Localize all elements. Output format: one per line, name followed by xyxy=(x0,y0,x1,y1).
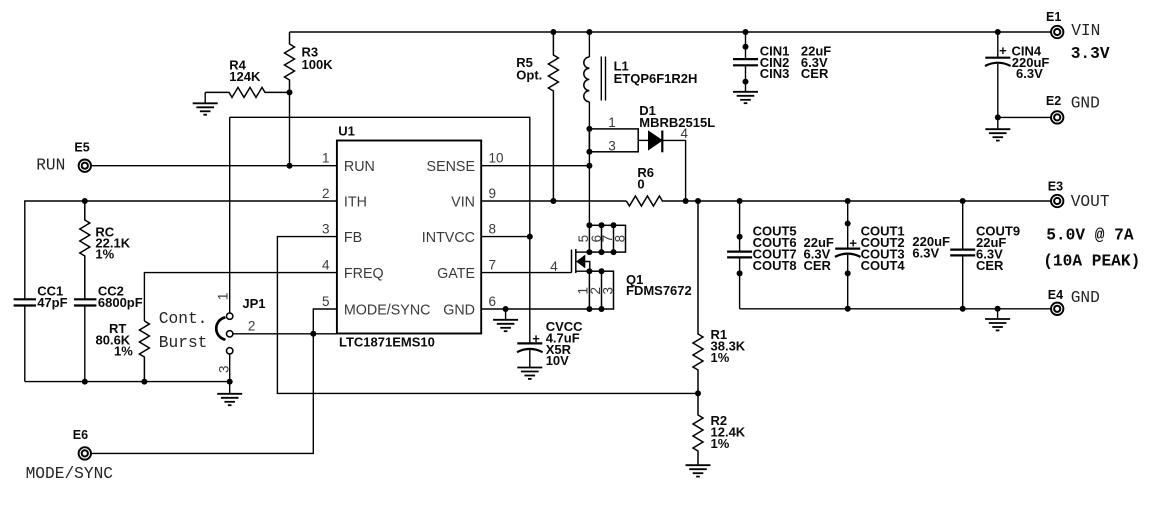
transistor Q1 source pad block pins 1-3 xyxy=(589,271,613,309)
svg-text:8: 8 xyxy=(489,222,497,237)
wire E2 xyxy=(998,116,1051,118)
svg-text:10: 10 xyxy=(489,151,504,166)
node GND junction xyxy=(503,306,509,312)
svg-text:VIN: VIN xyxy=(451,194,475,210)
wire INTVCC link top xyxy=(230,117,530,343)
svg-text:LTC1871EMS10: LTC1871EMS10 xyxy=(339,335,435,350)
diode D1 symbol xyxy=(649,131,663,150)
wire comp network bottom xyxy=(25,381,230,383)
wire L1 to D1/Q1 column xyxy=(588,102,590,226)
diode D1 package MBRB2515L xyxy=(589,129,638,152)
svg-text:RUN: RUN xyxy=(36,156,65,174)
ground at E2 xyxy=(997,117,999,129)
svg-text:3: 3 xyxy=(600,287,615,295)
node CIN4 top junction xyxy=(995,29,1001,35)
svg-text:MODE/SYNC: MODE/SYNC xyxy=(26,465,114,483)
ground at U1 GND xyxy=(505,309,507,320)
resistor RC xyxy=(80,201,90,299)
svg-text:2: 2 xyxy=(322,186,330,201)
node L1 top xyxy=(586,29,592,35)
wire INTVCC pin8 xyxy=(481,236,530,238)
wire JP1 pin1 stub from INTVCC link xyxy=(229,117,231,313)
node MODE/SYNC junction xyxy=(310,331,316,337)
svg-text:3: 3 xyxy=(322,222,330,237)
svg-text:Burst: Burst xyxy=(159,334,208,352)
svg-text:MODE/SYNC: MODE/SYNC xyxy=(344,302,431,318)
terminal E1 xyxy=(1051,26,1063,38)
jumper JP1 pin3 xyxy=(227,348,233,354)
svg-text:4: 4 xyxy=(322,258,330,273)
svg-text:E3: E3 xyxy=(1048,180,1063,194)
svg-text:+: + xyxy=(999,43,1007,58)
transistor Q1 drain pad block pins 5-8 xyxy=(589,225,625,252)
wire top VIN rail xyxy=(290,31,1051,33)
node Q1 drain dots bottom xyxy=(586,249,592,255)
resistor R6 xyxy=(626,196,685,206)
ground at CVCC xyxy=(517,368,542,379)
wire FREQ pin4 xyxy=(144,273,337,321)
ground at CIN xyxy=(733,92,758,103)
svg-text:0: 0 xyxy=(637,177,644,192)
resistor R3 xyxy=(285,32,295,92)
resistor R1 xyxy=(693,201,703,393)
wire MODE/SYNC pin5 xyxy=(313,309,337,334)
svg-text:FDMS7672: FDMS7672 xyxy=(626,283,692,298)
svg-text:2: 2 xyxy=(248,319,256,334)
wire GND pin6 xyxy=(481,308,589,310)
resistor R4 xyxy=(205,87,289,97)
node D1 pin1 xyxy=(586,126,592,132)
jumper JP1 shunt arc xyxy=(216,318,224,340)
wire MODE/SYNC to E6 xyxy=(91,334,313,454)
node INTVCC junction xyxy=(527,234,533,240)
svg-text:7: 7 xyxy=(489,258,497,273)
svg-text:E2: E2 xyxy=(1046,94,1061,108)
svg-text:47pF: 47pF xyxy=(37,295,67,310)
svg-text:ITH: ITH xyxy=(344,194,367,210)
svg-text:10V: 10V xyxy=(546,353,569,368)
svg-text:VOUT: VOUT xyxy=(1071,193,1110,211)
svg-text:ETQP6F1R2H: ETQP6F1R2H xyxy=(614,71,698,86)
node Q1 source dots top xyxy=(586,268,592,274)
node Q1 drain dots top xyxy=(586,222,592,228)
svg-text:1: 1 xyxy=(322,151,330,166)
capacitor CIN4 polarized xyxy=(997,32,999,58)
wire D1 cathode xyxy=(662,140,685,201)
capacitor COUT1-4 polarized xyxy=(847,201,849,249)
capacitor CVCC polarized xyxy=(517,342,542,344)
svg-text:E1: E1 xyxy=(1046,10,1061,24)
capacitor COUT5-8 xyxy=(739,201,741,252)
svg-text:GND: GND xyxy=(443,302,475,318)
svg-text:1: 1 xyxy=(608,115,616,130)
inductor L1 core lines xyxy=(600,57,602,101)
node JP1 pin3 bottom xyxy=(227,379,233,385)
svg-text:E6: E6 xyxy=(73,428,88,442)
capacitor COUT9 xyxy=(962,201,964,250)
node R3/R4 junction xyxy=(287,89,293,95)
svg-text:5.0V @ 7A: 5.0V @ 7A xyxy=(1046,227,1134,245)
node COUT9 top junction xyxy=(960,198,966,204)
ground at R4 xyxy=(204,92,206,103)
capacitor CC1 xyxy=(14,298,36,300)
wire R3 to RUN xyxy=(289,92,291,165)
node COUT9 bottom junction xyxy=(960,306,966,312)
svg-text:3.3V: 3.3V xyxy=(1071,45,1110,63)
node R1 top junction xyxy=(695,198,701,204)
svg-text:5: 5 xyxy=(322,294,330,309)
wire FB pin3 to divider xyxy=(277,237,698,394)
wire D1 anode xyxy=(638,139,648,141)
svg-text:1%: 1% xyxy=(114,344,133,359)
resistor RT xyxy=(139,321,149,382)
op-amp U1 body LTC1871EMS10 xyxy=(337,141,481,334)
node E4 ground junction xyxy=(995,306,1001,312)
wire JP1 pin2 to MODE/SYNC xyxy=(233,333,337,335)
transistor Q1 MOSFET symbol xyxy=(571,250,573,273)
svg-text:100K: 100K xyxy=(302,57,334,72)
capacitor CIN1-3 xyxy=(745,32,747,59)
node R5 bottom VIN junction xyxy=(550,198,556,204)
svg-text:1: 1 xyxy=(215,293,230,301)
node D1 pin3 xyxy=(586,149,592,155)
node COUT1 bottom junction xyxy=(845,306,851,312)
svg-text:6.3V: 6.3V xyxy=(912,246,939,261)
svg-text:6800pF: 6800pF xyxy=(98,295,143,310)
svg-text:9: 9 xyxy=(489,186,497,201)
wire output GND rail xyxy=(740,308,998,310)
svg-text:U1: U1 xyxy=(338,124,355,139)
svg-text:MBRB2515L: MBRB2515L xyxy=(639,115,715,130)
node D1 out junction xyxy=(683,198,689,204)
wire R6 to VOUT rail xyxy=(686,200,1051,202)
svg-text:1%: 1% xyxy=(711,436,730,451)
wire SENSE pin10 xyxy=(481,165,589,167)
svg-text:CER: CER xyxy=(976,258,1004,273)
svg-text:+: + xyxy=(849,236,857,251)
svg-text:CER: CER xyxy=(804,258,832,273)
node Q1 source dots bottom xyxy=(586,306,592,312)
svg-text:Opt.: Opt. xyxy=(516,68,542,83)
node R5 top xyxy=(550,29,556,35)
svg-text:3: 3 xyxy=(216,366,231,374)
svg-text:1%: 1% xyxy=(711,350,730,365)
terminal E2 xyxy=(1051,111,1063,123)
svg-text:E4: E4 xyxy=(1048,288,1063,302)
svg-text:E5: E5 xyxy=(74,141,89,155)
svg-text:VIN: VIN xyxy=(1071,22,1100,40)
resistor R2 xyxy=(693,393,703,465)
node SENSE junction xyxy=(586,163,592,169)
svg-text:GND: GND xyxy=(1071,95,1100,113)
svg-text:6: 6 xyxy=(489,294,497,309)
svg-text:FB: FB xyxy=(344,230,362,246)
ground at JP1 xyxy=(229,382,231,394)
node RUN junction xyxy=(287,163,293,169)
wire L1 top lead xyxy=(588,32,590,57)
svg-text:SENSE: SENSE xyxy=(427,159,475,175)
svg-text:GATE: GATE xyxy=(437,266,475,282)
node E2 junction xyxy=(995,114,1001,120)
node CC2 bottom xyxy=(82,379,88,385)
svg-text:INTVCC: INTVCC xyxy=(422,230,475,246)
capacitor CC2 xyxy=(74,298,96,300)
ground at R2 xyxy=(686,465,711,476)
wire ITH pin2 xyxy=(25,201,337,299)
node COUT5 top junction xyxy=(737,198,743,204)
svg-text:CIN3: CIN3 xyxy=(760,66,790,81)
svg-text:RUN: RUN xyxy=(344,159,375,175)
jumper JP1 pin2 xyxy=(227,331,233,337)
svg-text:COUT4: COUT4 xyxy=(861,258,906,273)
resistor R5 xyxy=(548,32,558,201)
svg-text:CER: CER xyxy=(801,66,829,81)
svg-text:1%: 1% xyxy=(95,246,114,261)
svg-text:4: 4 xyxy=(550,259,558,274)
svg-text:GND: GND xyxy=(1071,289,1100,307)
wire E4 xyxy=(998,308,1051,310)
jumper JP1 pin1 xyxy=(227,313,233,319)
terminal E4 xyxy=(1051,303,1063,315)
wire GATE pin7 xyxy=(481,272,571,274)
terminal E3 xyxy=(1051,195,1063,207)
wire E5 to U1 pin1 xyxy=(91,165,337,167)
svg-text:124K: 124K xyxy=(229,69,261,84)
svg-text:COUT8: COUT8 xyxy=(753,258,797,273)
svg-text:8: 8 xyxy=(613,235,628,243)
terminal E5 xyxy=(79,160,91,172)
inductor L1 xyxy=(584,57,590,102)
node ITH/RC junction xyxy=(82,198,88,204)
ground at E4 xyxy=(997,309,999,319)
svg-text:6.3V: 6.3V xyxy=(1016,66,1043,81)
svg-text:+: + xyxy=(532,331,540,346)
svg-text:3: 3 xyxy=(608,139,616,154)
svg-text:FREQ: FREQ xyxy=(344,266,384,282)
svg-text:JP1: JP1 xyxy=(242,296,265,311)
wire JP1 pin3 stub xyxy=(229,354,231,382)
terminal E6 xyxy=(79,447,91,459)
node FB divider junction xyxy=(695,390,701,396)
svg-text:(10A PEAK): (10A PEAK) xyxy=(1043,253,1140,271)
node CIN top junction xyxy=(743,29,749,35)
svg-text:Cont.: Cont. xyxy=(159,310,208,328)
node COUT1 top junction xyxy=(845,198,851,204)
node RT bottom xyxy=(141,379,147,385)
wire VIN pin9 to R6 xyxy=(481,200,626,202)
